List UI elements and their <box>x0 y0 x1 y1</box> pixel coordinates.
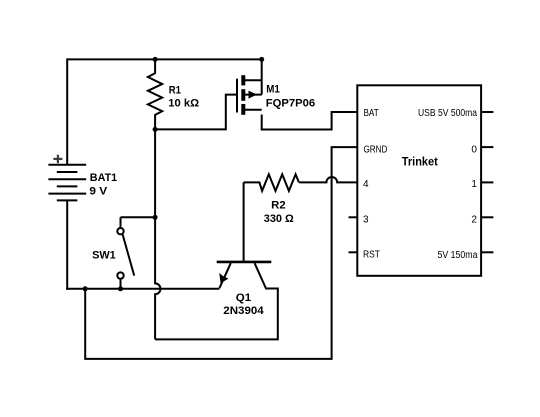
wire Trinket GRND down to bottom rail <box>85 147 357 359</box>
node junction bottom rail <box>83 286 88 291</box>
wire battery positive lead <box>66 58 68 164</box>
svg-text:M1: M1 <box>266 84 280 96</box>
pin RST stub <box>349 251 358 253</box>
transistor M1 P-MOSFET <box>237 75 262 115</box>
top terminal lead <box>120 217 122 228</box>
svg-text:BAT: BAT <box>364 108 379 119</box>
svg-text:GRND: GRND <box>364 144 388 155</box>
resistor R2 <box>244 174 299 191</box>
wire R2 left lead down to Q1 base <box>243 182 245 262</box>
resistor R1 <box>148 59 162 129</box>
pin 5V stub <box>481 251 493 253</box>
node junction R1 top <box>153 57 158 62</box>
svg-text:R1: R1 <box>169 85 181 97</box>
svg-text:RST: RST <box>363 250 380 261</box>
wire M1 drain to top rail <box>261 59 263 94</box>
channel bar drain <box>241 75 245 85</box>
node junction SW1 top <box>153 215 158 220</box>
svg-text:Q1: Q1 <box>236 292 251 304</box>
channel bar source <box>241 104 245 115</box>
lever <box>123 234 135 275</box>
IC U1 Trinket box <box>357 85 481 275</box>
svg-text:SW1: SW1 <box>92 250 116 262</box>
emitter diagonal <box>219 263 230 288</box>
svg-text:FQP7P06: FQP7P06 <box>266 97 315 109</box>
body lead <box>245 94 262 96</box>
svg-text:R2: R2 <box>271 199 285 211</box>
wire emitter rail bottom-left <box>66 288 219 290</box>
svg-text:Trinket: Trinket <box>402 155 438 169</box>
pin USB stub <box>481 111 493 113</box>
svg-text:10 kΩ: 10 kΩ <box>168 98 199 110</box>
svg-text:330 Ω: 330 Ω <box>264 213 294 225</box>
pin 2 stub <box>481 216 493 218</box>
svg-text:0: 0 <box>471 144 477 155</box>
battery BAT1 <box>48 165 86 201</box>
bottom terminal lead <box>120 279 122 289</box>
Trinket pin stubs right <box>481 112 493 252</box>
pin 1 stub <box>481 181 493 183</box>
channel bar body <box>241 89 245 101</box>
Trinket pin stubs left <box>349 217 358 252</box>
wire gate connection from R1 bottom <box>155 95 236 130</box>
node junction R1 bottom <box>153 127 158 132</box>
node junction SW1 bottom <box>118 286 123 291</box>
wire SW1 top to vertical rail <box>121 216 156 218</box>
top terminal circle <box>117 228 123 234</box>
wire M1 source to Trinket BAT <box>262 112 358 130</box>
node junction M1 drain corner <box>259 57 264 62</box>
source lead <box>245 109 262 111</box>
Q1 emitter arrow <box>219 273 228 283</box>
wire battery negative lead <box>66 200 68 289</box>
svg-text:1: 1 <box>471 179 477 190</box>
wire top rail <box>67 58 262 60</box>
battery plus sign <box>53 155 62 163</box>
svg-text:4: 4 <box>363 179 369 190</box>
base bar <box>217 261 272 264</box>
svg-text:2: 2 <box>471 214 477 225</box>
switch SW1 <box>117 217 134 288</box>
pin 0 stub <box>481 146 493 148</box>
svg-text:5V 150ma: 5V 150ma <box>438 250 478 261</box>
svg-text:USB 5V 500ma: USB 5V 500ma <box>418 108 477 119</box>
M1 body arrow <box>249 91 258 99</box>
drain lead <box>245 79 262 81</box>
gate bar <box>236 79 238 113</box>
svg-text:9 V: 9 V <box>89 186 108 198</box>
wire Q1 collector loop bottom <box>155 263 278 339</box>
transistor Q1 NPN <box>217 262 272 288</box>
bottom terminal circle <box>117 272 123 278</box>
wire R2 right lead to Trinket pin 4 with hop over GRND wire <box>299 177 357 182</box>
svg-text:3: 3 <box>363 214 369 225</box>
svg-text:BAT1: BAT1 <box>90 172 117 184</box>
svg-text:2N3904: 2N3904 <box>223 305 264 317</box>
pin 3 stub <box>349 216 358 218</box>
wire gate net vertical rail with hop over emitter rail <box>155 129 160 339</box>
